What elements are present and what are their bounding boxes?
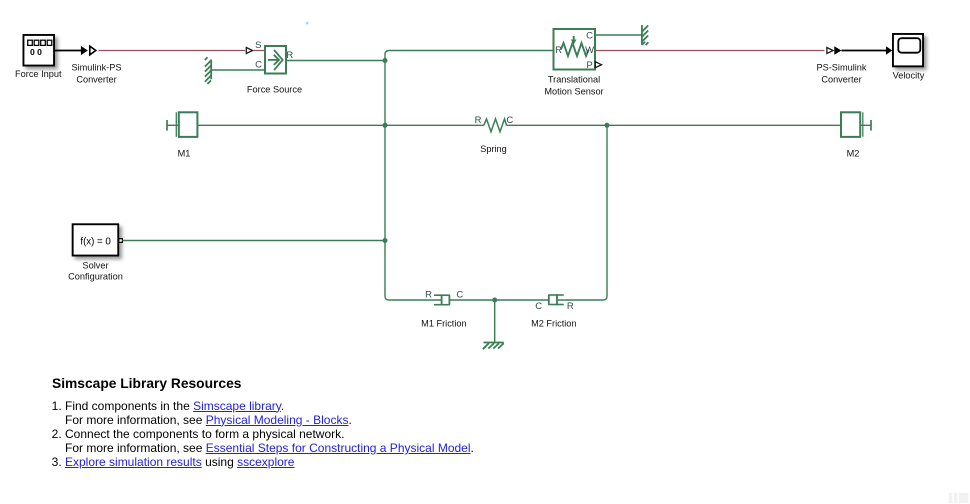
svg-text:S: S [255,40,261,51]
wire: M1 to spring [198,124,484,126]
wire: PS line converter to Force Source S (red) [99,50,246,52]
svg-text:R: R [567,301,574,312]
wire: solver to left vertical [122,240,385,242]
svg-text:Solver: Solver [82,261,108,271]
svg-text:Spring: Spring [480,144,507,154]
svg-text:Force Source: Force Source [247,85,302,95]
junction node at force source R [383,58,388,63]
watermark marks bottom right [949,493,969,503]
svg-text:M2: M2 [847,149,860,159]
icon arrow with double chevron [268,50,283,70]
svg-text:R: R [555,45,562,56]
svg-text:M2 Friction: M2 Friction [531,319,576,329]
svg-text:Converter: Converter [76,75,116,85]
wire: sensor W to PS-Simulink converter (red) [595,50,824,52]
annotation marker (light blue square) [306,22,309,24]
svg-text:f(x) = 0: f(x) = 0 [80,237,111,248]
wire: ground stub [494,300,496,342]
wire: Force Source R to left vertical [286,60,385,62]
svg-text:C: C [506,115,513,126]
svg-text:C: C [586,30,593,41]
svg-text:C: C [535,301,542,312]
svg-text:M1 Friction: M1 Friction [421,319,466,329]
Solver Configuration block [73,224,123,255]
red stub to S [254,50,265,52]
M2 Friction damper [548,294,564,305]
junction node at ground stub [492,298,497,303]
open arrow at S port [246,48,252,54]
Velocity block [893,34,923,66]
wire: spring to M2 [507,124,841,126]
svg-text:PS-Simulink: PS-Simulink [816,63,866,73]
Simscape Library Resources text [52,376,612,470]
ground symbol [483,343,504,350]
junction node at solver row [383,238,388,243]
arrowhead filled (signal) [81,46,88,55]
svg-text:W: W [585,45,594,56]
wire: sensor C to wall [595,34,642,36]
svg-text:Configuration: Configuration [68,271,123,281]
svg-text:P: P [586,60,592,71]
svg-text:Velocity: Velocity [893,71,925,81]
svg-text:0 0: 0 0 [30,47,42,57]
M1 Friction damper [434,294,450,305]
spring zigzag [484,119,507,132]
svg-text:C: C [255,59,262,70]
Simulink-PS Converter block (open triangle) [90,46,96,55]
icon arrow down [573,36,575,41]
open arrow at P port [595,62,601,68]
main green network: left vertical, bottom rail, right vertical [385,51,554,301]
icon zigzag [561,43,589,56]
PS-Simulink Converter block (filled triangle) [834,46,841,55]
wire: rail between frictions [450,299,549,301]
svg-text:R: R [425,290,432,301]
junction node at M1 row left [383,123,388,128]
svg-text:M1: M1 [178,149,191,159]
wall anchor right of sensor [642,25,649,45]
svg-text:Force Input: Force Input [15,69,62,79]
M1 block [167,112,197,137]
svg-text:Motion Sensor: Motion Sensor [544,87,603,97]
Force Source block [265,46,286,74]
Force Input block [24,35,55,66]
svg-text:R: R [475,115,482,126]
junction node at M1 row right [605,123,610,128]
wire: converter to Velocity (black) [841,50,886,52]
icon: 4 squares [28,40,33,45]
open arrow into converter [827,48,833,54]
wall anchor left of Force Source [205,57,211,84]
M2 block [841,112,871,137]
wire: wall to C of Force Source [212,69,265,71]
svg-text:Converter: Converter [821,75,861,85]
svg-text:Translational: Translational [548,75,600,85]
svg-text:R: R [286,50,293,61]
Translational Motion Sensor block [554,29,596,70]
svg-text:Simulink-PS: Simulink-PS [71,63,121,73]
wire: rail right segment and right vertical [558,125,607,300]
wire: Force Input to converter (black) [55,50,82,52]
svg-text:C: C [456,290,463,301]
